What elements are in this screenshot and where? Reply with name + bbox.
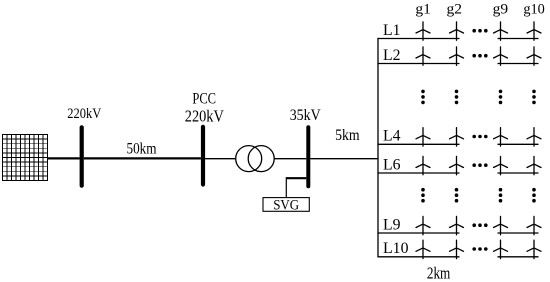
wind turbine g10 on feeder L6 xyxy=(527,156,541,174)
wind turbine g2 on feeder L6 xyxy=(450,156,464,174)
wind turbine g2 on feeder L9 xyxy=(450,216,464,234)
wire: transformer T1 to 35kV bus xyxy=(274,158,306,160)
wire: feeder L1 right segment xyxy=(498,38,539,40)
wind turbine g2 on feeder L4 xyxy=(450,128,464,146)
ellipsis dots (more feeders) column g1 between L6-L9 xyxy=(421,188,425,203)
svg-text:220kV: 220kV xyxy=(185,107,224,126)
wind turbine g10 on feeder L4 xyxy=(527,128,541,146)
wire: PCC bus to transformer T1 xyxy=(205,158,236,160)
ellipsis dots (more feeders) column g10 between L2-L4 xyxy=(532,90,536,105)
svg-text:L1: L1 xyxy=(383,22,401,39)
ellipsis dots (more feeders) column g2 between L2-L4 xyxy=(455,90,459,105)
bus PCC 220kV xyxy=(201,127,205,185)
svg-text:L2: L2 xyxy=(383,47,401,64)
bus B1 220kV (grid side) xyxy=(80,127,84,185)
ellipsis dots (more turbines) on feeder L4 xyxy=(472,135,487,139)
wire: feeder L10 left segment xyxy=(377,256,459,258)
svg-text:L6: L6 xyxy=(383,156,401,173)
svg-text:2km: 2km xyxy=(427,263,451,282)
wind turbine g9 on feeder L9 xyxy=(494,216,508,234)
ellipsis dots (more turbines) on feeder L9 xyxy=(472,223,487,227)
ellipsis dots (more feeders) column g9 between L6-L9 xyxy=(499,188,503,203)
ellipsis dots (more turbines) on feeder L2 xyxy=(472,54,487,58)
wind turbine g1 on feeder L2 xyxy=(416,47,430,65)
SVG static var generator (box) xyxy=(263,197,309,213)
wire: feeder L10 right segment xyxy=(498,256,539,258)
wind turbine g10 on feeder L1 xyxy=(527,22,541,40)
wind turbine g2 on feeder L10 xyxy=(450,240,464,258)
svg-text:L4: L4 xyxy=(383,128,401,145)
ellipsis dots (more turbines) on feeder L1 xyxy=(472,29,487,33)
svg-text:5km: 5km xyxy=(335,127,360,144)
ellipsis dots (more feeders) column g9 between L2-L4 xyxy=(499,90,503,105)
wind turbine g2 on feeder L1 xyxy=(450,22,464,40)
wind turbine g10 on feeder L9 xyxy=(527,216,541,234)
wire: feeder L6 left segment xyxy=(377,172,459,174)
wire: feeder L2 right segment xyxy=(498,63,539,65)
wind turbine g1 on feeder L1 xyxy=(416,22,430,40)
wire: feeder L1 left segment xyxy=(377,38,459,40)
wind turbine g1 on feeder L10 xyxy=(416,240,430,258)
wire: feeder L2 left segment xyxy=(377,63,459,65)
svg-text:g2: g2 xyxy=(447,2,463,18)
wind turbine g9 on feeder L2 xyxy=(494,47,508,65)
bus B3 35kV xyxy=(306,127,310,186)
svg-text:220kV: 220kV xyxy=(67,106,101,122)
wire: feeder L6 right segment xyxy=(498,172,539,174)
wind turbine g2 on feeder L2 xyxy=(450,47,464,65)
wind turbine g10 on feeder L10 xyxy=(527,240,541,258)
wind turbine g1 on feeder L4 xyxy=(416,128,430,146)
wire: feeder L4 left segment xyxy=(377,143,459,145)
wire: feeder L4 right segment xyxy=(498,143,539,145)
wire: grid source to 220kV bus xyxy=(48,157,80,159)
wind turbine g9 on feeder L10 xyxy=(494,240,508,258)
wire: 50km transmission line (B1 to PCC) xyxy=(84,157,201,159)
wire: 35kV bus stub to SVG branch xyxy=(286,177,306,179)
svg-text:L9: L9 xyxy=(383,216,401,233)
ellipsis dots (more feeders) column g2 between L6-L9 xyxy=(455,188,459,203)
svg-text:L10: L10 xyxy=(383,240,409,257)
wire: drop to SVG compensator xyxy=(285,177,287,198)
svg-text:g9: g9 xyxy=(493,2,509,18)
wire: 5km collector line (35kV bus to feeder trunk) xyxy=(310,158,378,160)
grid source (power grid equivalent) xyxy=(3,135,48,181)
wire: feeder L9 right segment xyxy=(498,232,539,234)
svg-text:PCC: PCC xyxy=(192,90,216,107)
wind turbine g9 on feeder L4 xyxy=(494,128,508,146)
ellipsis dots (more feeders) column g1 between L2-L4 xyxy=(421,90,425,105)
wind turbine g1 on feeder L6 xyxy=(416,156,430,174)
ellipsis dots (more turbines) on feeder L10 xyxy=(472,247,487,251)
svg-text:g1: g1 xyxy=(415,2,431,18)
wind turbine g9 on feeder L1 xyxy=(494,22,508,40)
ellipsis dots (more turbines) on feeder L6 xyxy=(472,163,487,167)
wind turbine g9 on feeder L6 xyxy=(494,156,508,174)
wire: feeder L9 left segment xyxy=(377,232,459,234)
wind turbine g10 on feeder L2 xyxy=(527,47,541,65)
transformer T1 220kV/35kV (two-winding) xyxy=(236,146,275,172)
svg-text:35kV: 35kV xyxy=(290,107,321,124)
svg-text:50km: 50km xyxy=(127,140,157,157)
ellipsis dots (more feeders) column g10 between L6-L9 xyxy=(532,188,536,203)
svg-text:g10: g10 xyxy=(523,2,545,18)
feeder trunk bus (vertical collector) xyxy=(377,38,379,257)
wind turbine g1 on feeder L9 xyxy=(416,216,430,234)
svg-text:SVG: SVG xyxy=(273,197,299,213)
